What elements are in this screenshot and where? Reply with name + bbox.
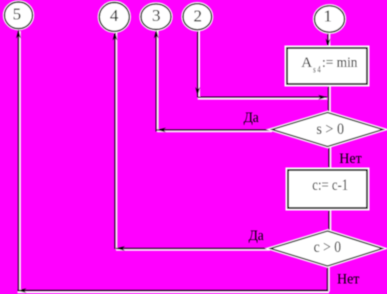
svg-text:Нет: Нет [337, 272, 360, 288]
arrowhead left at bottom-left corner [18, 288, 27, 293]
wire from circle 3 down to Да corner [156, 30, 158, 132]
wire from bend right to node above diamond s>0 [198, 97, 327, 99]
arrowhead up into circle 4 [113, 32, 118, 41]
connector circle 3 [141, 4, 171, 30]
svg-text:1: 1 [324, 7, 333, 26]
svg-text:3: 3 [152, 6, 161, 25]
wire from diamond c>0 bottom down to bottom line [328, 266, 330, 292]
wire Да branch of s>0 (horizontal) [157, 130, 272, 132]
svg-text:A: A [301, 55, 312, 71]
connector circle 4 [99, 3, 129, 32]
wire from rect A down to diamond s>0 [329, 84, 331, 114]
svg-text:c:= c-1: c:= c-1 [312, 177, 348, 194]
svg-text:Да: Да [244, 110, 260, 126]
arrowhead right into node above diamond s>0 [318, 95, 327, 100]
process rect A s,4 := min [287, 48, 367, 84]
svg-text:s > 0: s > 0 [316, 121, 344, 138]
svg-text::= min: := min [322, 55, 358, 71]
svg-text:2: 2 [193, 6, 202, 25]
decision diamond s > 0 [272, 113, 383, 147]
wire from circle 1 down to rect A [328, 32, 330, 49]
wire from rect c down to diamond c>0 [329, 208, 331, 232]
connector circle 5 [5, 2, 33, 29]
svg-text:c > 0: c > 0 [314, 239, 342, 256]
arrowhead left at Да corner of s>0 [157, 128, 166, 133]
wire from circle 2 down [198, 30, 200, 99]
svg-text:4: 4 [110, 6, 119, 25]
svg-text:s 4: s 4 [313, 66, 321, 76]
arrowhead down into rect A [326, 39, 331, 48]
arrowhead down at bend of circle-2 wire [195, 87, 200, 96]
arrowhead left at Да corner of c>0 [116, 246, 125, 251]
wire from circle 5 down to bottom-left corner [19, 30, 21, 292]
svg-text:5: 5 [13, 4, 22, 23]
wire from circle 4 down to Да corner [115, 31, 117, 250]
wire from diamond s>0 down to rect c [329, 146, 331, 170]
svg-text:Да: Да [249, 228, 265, 244]
wire bottom horizontal (Нет branch of c>0) [18, 291, 330, 293]
connector circle 2 [183, 4, 212, 30]
arrowhead up into circle 3 [154, 30, 159, 39]
decision diamond c > 0 [271, 231, 383, 266]
connector circle 1 [315, 6, 345, 32]
svg-text:Нет: Нет [339, 151, 362, 167]
arrowhead up into circle 5 [16, 30, 21, 39]
process rect c := c-1 [288, 170, 367, 208]
wire Да branch of c>0 (horizontal) [116, 249, 270, 251]
